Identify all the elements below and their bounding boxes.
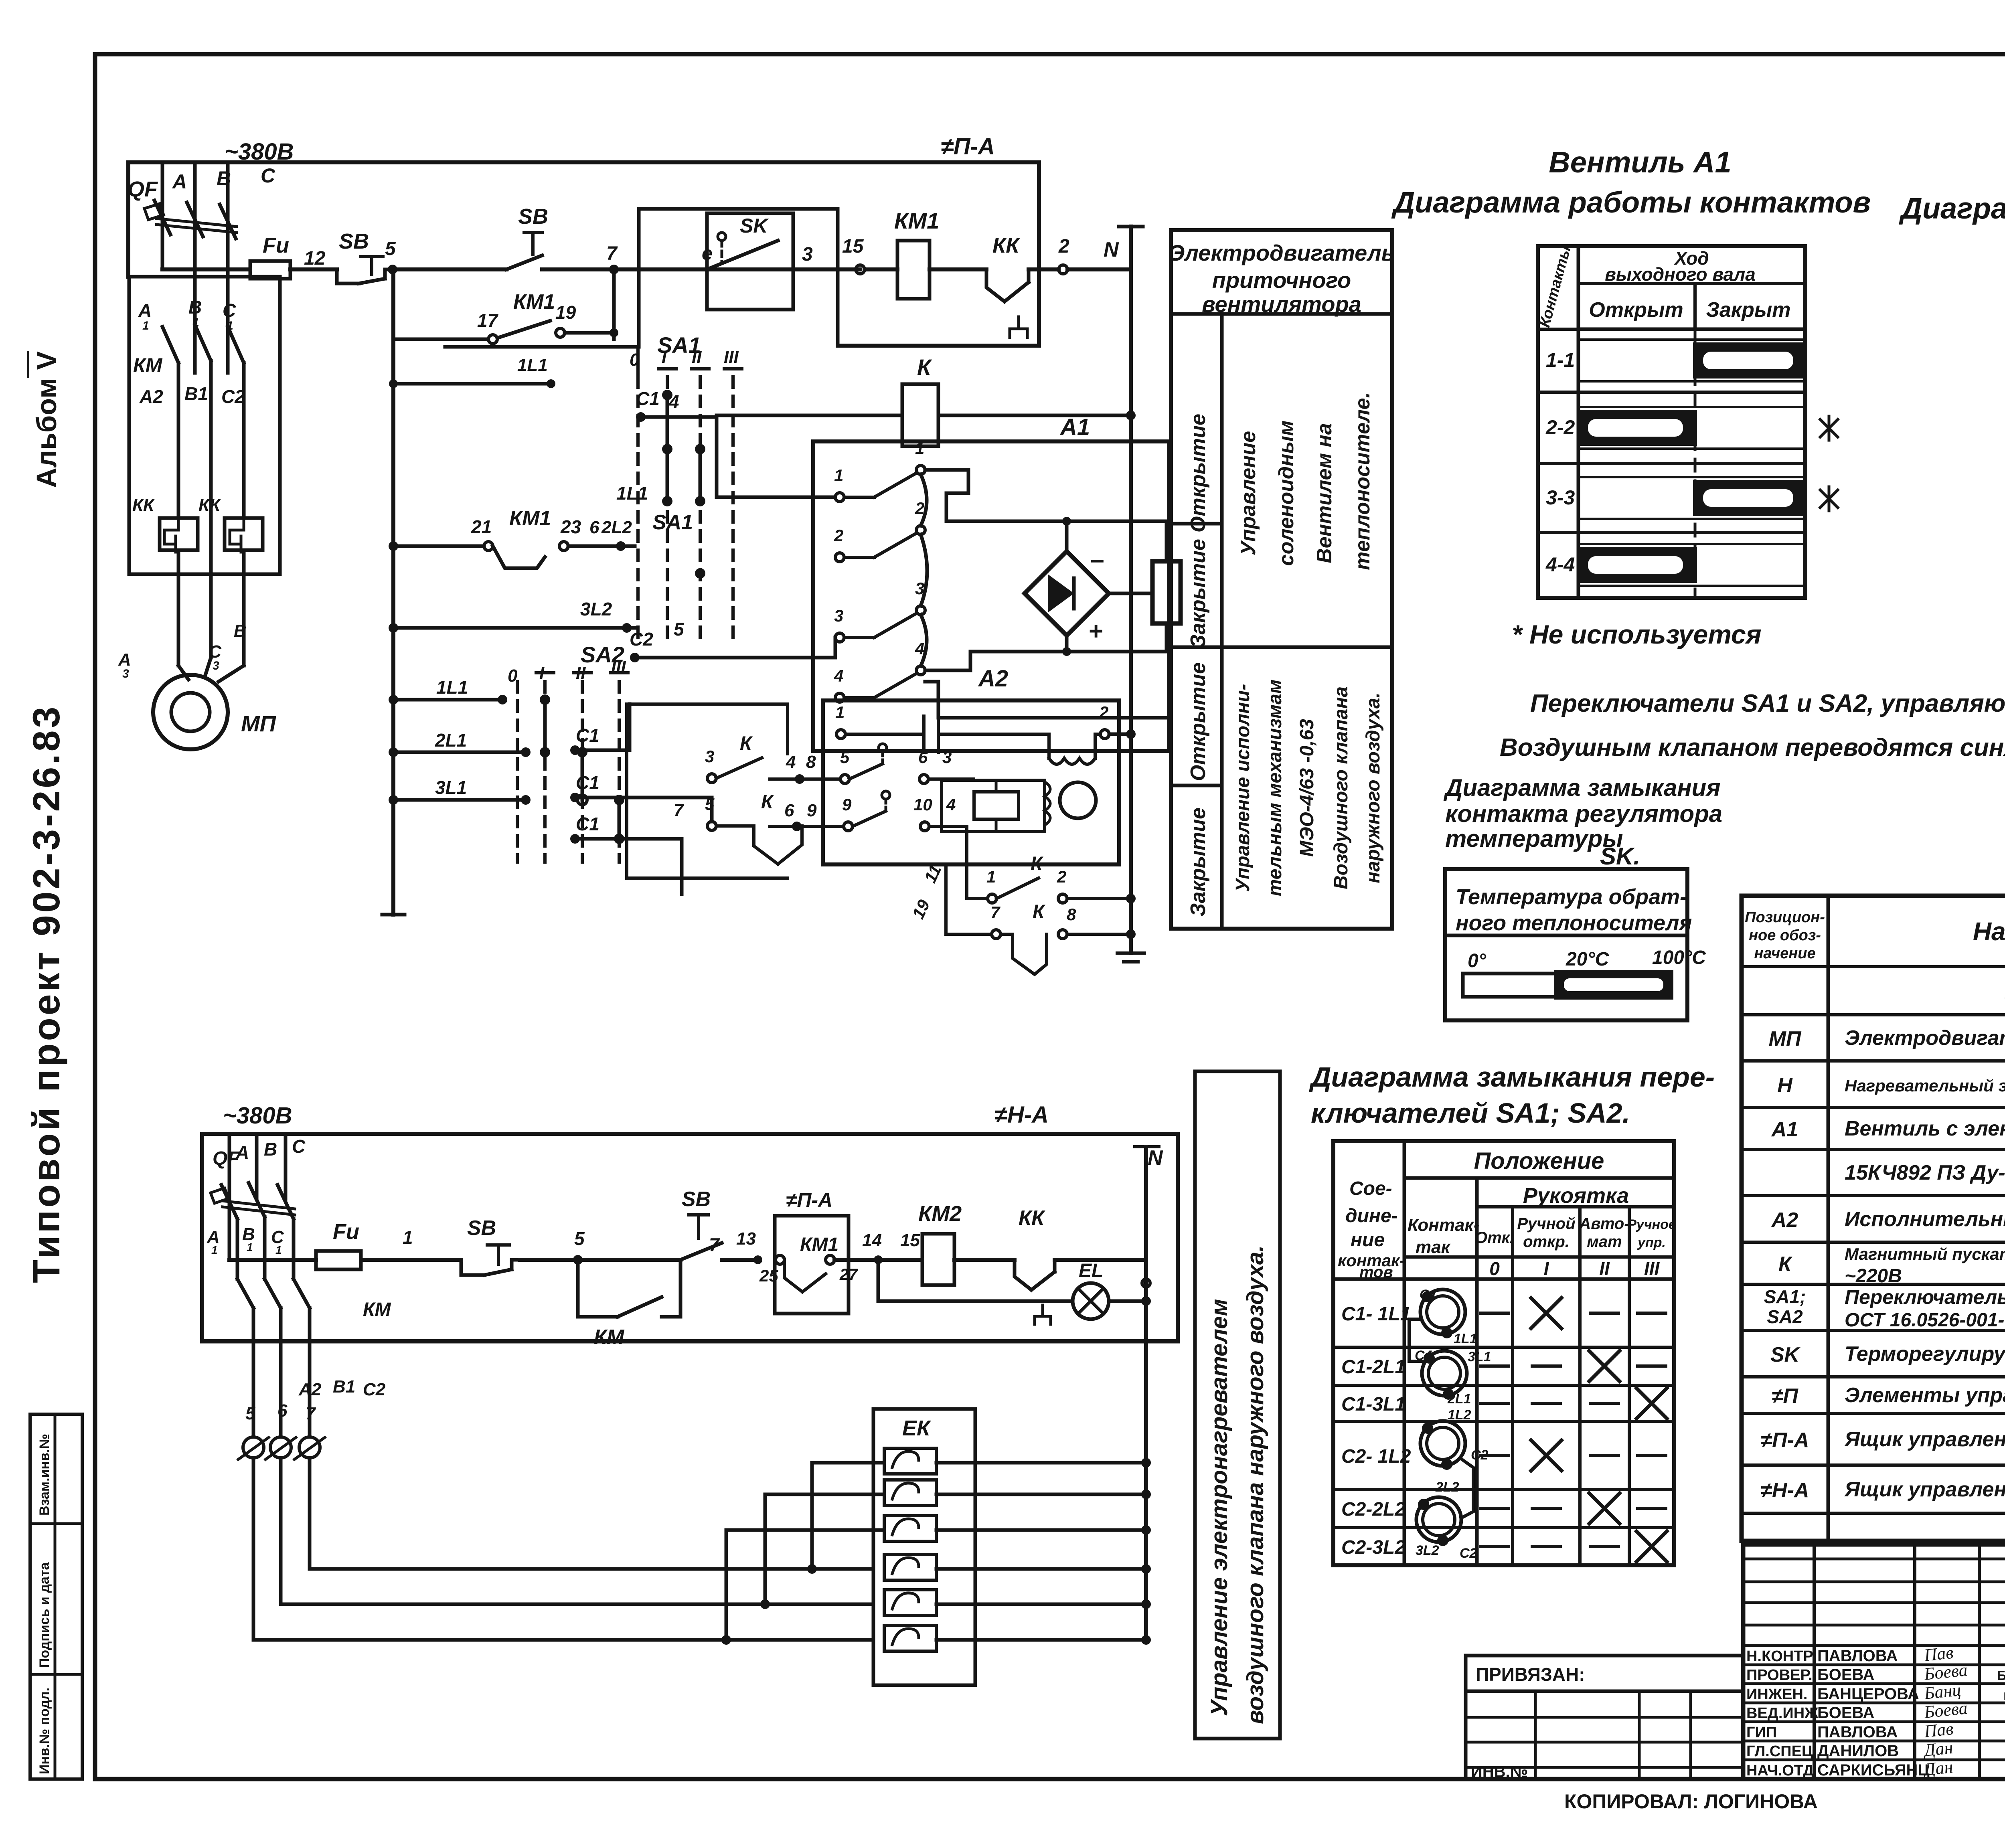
svg-text:5: 5 [840, 748, 850, 767]
KK enclosure top [129, 275, 280, 279]
K contact1 term [988, 894, 996, 903]
svg-text:Управление исполни-: Управление исполни- [1232, 684, 1254, 892]
EL branch wire [878, 1299, 1073, 1303]
asterisk row3-3 [1820, 487, 1838, 511]
svg-text:К: К [740, 733, 753, 754]
title block left row line [1743, 1581, 2005, 1583]
K contact5 term [840, 775, 849, 783]
stamp divider [54, 1414, 57, 1779]
K breaker 7-8 [1000, 934, 1047, 974]
A1 diag thin line b 2-2 [1578, 447, 1805, 450]
svg-text:3L2: 3L2 [580, 599, 612, 619]
A1 diag thin line a 1-1 [1578, 338, 1805, 341]
SB2 contact blade [506, 255, 542, 269]
svg-text:SA2: SA2 [1767, 1306, 1803, 1327]
svg-text:КОПИРОВАЛ: ЛОГИНОВА: КОПИРОВАЛ: ЛОГИНОВА [1564, 1790, 1818, 1813]
svg-text:4: 4 [946, 795, 956, 814]
A1 diag bar 3-3 [1695, 482, 1805, 514]
svg-text:С2: С2 [221, 386, 245, 407]
A1 diag thin line a 2-2 [1578, 406, 1805, 408]
SA2 bar II [581, 752, 584, 800]
wire 23 to SA1 [568, 544, 635, 548]
temp bar outline [1463, 974, 1671, 997]
SA contact circle 2 inner [1428, 1357, 1460, 1389]
svg-text:ного теплоносителя: ного теплоносителя [1456, 911, 1692, 935]
A1 link wires [921, 474, 927, 666]
inv table row line [1466, 1741, 1743, 1744]
A1 bridge top lead [1065, 521, 1069, 551]
A1 bridge right lead [1109, 592, 1152, 595]
A1 bottom junction [1062, 647, 1071, 656]
svg-text:БАНЦЕРОВА: БАНЦЕРОВА [1817, 1685, 1919, 1703]
A1 pin4 link [925, 669, 970, 672]
svg-text:А1: А1 [1059, 414, 1090, 440]
c2 node 13 [753, 1255, 762, 1264]
A2 row1 wire [845, 733, 924, 736]
svg-text:14: 14 [862, 1231, 882, 1250]
KM blade B [195, 325, 211, 361]
fuse FU [250, 261, 290, 279]
A1 pin3 right [916, 606, 925, 615]
svg-text:Открытие: Открытие [1187, 662, 1210, 781]
inv table left [1464, 1691, 1468, 1779]
svg-text:17: 17 [477, 310, 499, 331]
c2 QF tie2 [223, 1207, 295, 1215]
terminal circle [299, 1437, 320, 1458]
svg-text:8: 8 [1067, 905, 1076, 924]
svg-text:Диаграмма работы контактов: Диаграмма работы контактов [1391, 186, 1871, 219]
EK elem3 riser [725, 1530, 728, 1640]
SA row line left С2-3L2 [1333, 1526, 1404, 1529]
svg-text:тельным механизмам: тельным механизмам [1264, 680, 1286, 897]
A2 motor winding [1049, 734, 1095, 764]
phase A to motor [177, 550, 180, 666]
SA1 column I dashed [666, 377, 669, 638]
temp bar filled [1556, 972, 1671, 998]
A1 diag row line 1-1 [1538, 328, 1805, 331]
svg-text:Переключатели SA1 и SA2, управ: Переключатели SA1 и SA2, управляющие вен… [1530, 690, 2005, 717]
SA2 col II tick [573, 671, 591, 674]
A1 coil return wire [970, 650, 1167, 654]
svg-text:2: 2 [1058, 236, 1069, 257]
inv table col line [1534, 1691, 1537, 1779]
asterisk row2-2 [1820, 416, 1838, 440]
wire fuse to SB [290, 267, 337, 271]
svg-text:Ящик управления ЯУ5111-03А2Н: Ящик управления ЯУ5111-03А2Н [1844, 1428, 2005, 1451]
bus 380V circuit1 / P-A box top [128, 160, 1039, 164]
svg-text:ГИП: ГИП [1746, 1724, 1777, 1741]
svg-text:Альбом V: Альбом V [31, 351, 62, 488]
K contact blade 1-2 [996, 878, 1039, 899]
A1 coil bottom lead [1165, 623, 1169, 652]
svg-text:5: 5 [674, 619, 685, 640]
contact 23 terminal [559, 542, 568, 551]
svg-text:SB: SB [518, 204, 548, 229]
divider open/close 2 [1171, 784, 1222, 787]
N rail ground [1117, 953, 1144, 962]
svg-text:ВЕД.ИНЖ: ВЕД.ИНЖ [1746, 1705, 1819, 1722]
SA col divider 1 [1403, 1141, 1406, 1565]
wire to relay block [928, 777, 974, 781]
SA contact circle 1 inner [1427, 1296, 1459, 1328]
svg-text:0°: 0° [1468, 950, 1487, 972]
svg-text:19: 19 [909, 897, 934, 922]
c2 KM1 contact [784, 1260, 826, 1292]
section divider [1171, 646, 1392, 649]
terminal circle [270, 1437, 291, 1458]
contactor coil KM1 [897, 241, 930, 299]
EK element 3 [884, 1516, 936, 1541]
EK element 3 wire to N [936, 1528, 1146, 1532]
QF handle [144, 204, 164, 220]
EK junction 3 [1141, 1525, 1151, 1535]
parts table row line [1742, 1148, 2005, 1151]
c2 main wire to fuse [229, 1258, 316, 1262]
svg-text:2L1: 2L1 [435, 730, 467, 751]
svg-text:15: 15 [842, 236, 864, 257]
wire 19 to vertical [565, 331, 614, 335]
c2 drop B to EK feed [279, 1458, 283, 1604]
svg-text:+: + [1088, 617, 1103, 645]
SA circle 3 blob b [1441, 1459, 1452, 1470]
svg-text:I: I [539, 663, 545, 683]
parts table box [1742, 896, 2005, 1541]
riser to SK enclosure [637, 209, 641, 347]
SA dash row4 colO [1480, 1454, 1509, 1457]
c2 QF blade A [221, 1185, 237, 1219]
QF blade A [154, 200, 170, 235]
A1 diag header line2 [1578, 328, 1805, 331]
c2 drop C to EK feed [308, 1458, 312, 1569]
N-A box top [202, 1132, 1178, 1136]
SA dash row1 colII [1590, 1312, 1618, 1315]
stub 1L1 [393, 698, 502, 702]
SA col divider 4 [1578, 1207, 1582, 1565]
c2 phase A drop2 [252, 1308, 255, 1435]
SA1 contact bar I b [666, 449, 669, 501]
A1 return drop [969, 652, 972, 670]
SA X mark row1 [1531, 1298, 1561, 1328]
svg-text:Сое-: Сое- [1349, 1178, 1392, 1199]
A1 diag bar 1-1 [1695, 344, 1805, 376]
SA hdr line rukoyatka [1404, 1176, 1674, 1180]
C2 stub dot [630, 653, 640, 662]
P-A box right edge [1037, 162, 1041, 346]
parts table row line [1742, 1412, 2005, 1415]
title block left row line [1743, 1644, 2005, 1647]
svg-text:SB: SB [467, 1216, 496, 1240]
svg-text:100°С: 100°С [1652, 947, 1706, 968]
c2 QF handle [211, 1188, 229, 1203]
SA circ link 3-4 [1461, 1459, 1473, 1518]
svg-text:В1: В1 [333, 1377, 355, 1397]
svg-text:Переключатель пакетный ПП2-10: Переключатель пакетный ПП2-10/Н3 У3 56 [1845, 1286, 2005, 1308]
SA contact circle 3 outer [1420, 1421, 1465, 1466]
C2-5 wire to A1 [635, 656, 835, 660]
SK device box [707, 213, 793, 310]
SA dash row3 colO [1480, 1402, 1509, 1405]
SA dash row5 colIII [1638, 1507, 1666, 1510]
A1 pin1 left [835, 493, 844, 502]
svg-text:1L2: 1L2 [1448, 1407, 1471, 1423]
wire node7 into box [614, 267, 840, 271]
svg-text:≠П-А: ≠П-А [941, 134, 995, 160]
SA row line left С2-2L2 [1333, 1488, 1404, 1491]
phase B vertical [193, 162, 197, 373]
wire K coil to N [938, 414, 1131, 417]
SA circle 1 blob b [1441, 1327, 1452, 1338]
EK junction 1 [1141, 1458, 1151, 1467]
svg-text:КМ1: КМ1 [513, 290, 555, 314]
svg-text:Ручное: Ручное [1627, 1217, 1676, 1232]
K contact blade row2 [849, 764, 883, 779]
svg-text:5: 5 [705, 795, 715, 814]
A2 row2 left node [795, 774, 804, 784]
svg-text:КМ: КМ [363, 1299, 391, 1320]
svg-text:7: 7 [990, 903, 1000, 922]
svg-text:2: 2 [834, 526, 843, 545]
svg-text:3L2: 3L2 [1416, 1543, 1439, 1558]
SA row line С2-3L2 [1404, 1526, 1674, 1529]
SA2 bar III [618, 800, 621, 839]
parts table column line [1827, 896, 1830, 1541]
svg-text:А: А [172, 170, 187, 193]
frame bottom border [95, 1777, 2005, 1781]
QF blade B [187, 202, 203, 237]
svg-text:7: 7 [709, 1234, 720, 1255]
terminal circle [243, 1437, 264, 1458]
c2 drop A to EK feed [252, 1458, 255, 1640]
SA1 contact bar I [666, 395, 669, 449]
title block vertical [1978, 1544, 1981, 1779]
svg-text:3: 3 [834, 606, 843, 625]
svg-text:1: 1 [275, 1244, 282, 1256]
svg-text:3: 3 [122, 667, 129, 680]
svg-text:В1: В1 [184, 383, 208, 404]
svg-text:1: 1 [834, 466, 843, 485]
A2 brake relay [974, 792, 1019, 819]
phase C to motor [242, 550, 246, 666]
wire to K coil [717, 414, 902, 417]
c2 P-A sub box [775, 1216, 849, 1314]
svg-text:Взам.инв.№: Взам.инв.№ [37, 1434, 52, 1516]
SA circle 4 blob a [1418, 1499, 1429, 1510]
svg-text:МЭО-4/63 -0,63: МЭО-4/63 -0,63 [1296, 719, 1318, 857]
wire into SK [674, 268, 707, 271]
A1 pin1 hook [925, 468, 968, 472]
svg-text:С1- 1L1: С1- 1L1 [1341, 1304, 1411, 1325]
wire phase A to fuse [162, 267, 250, 271]
svg-text:КМ: КМ [594, 1326, 625, 1349]
wire SK to 15 [778, 267, 860, 271]
riser to K78 [944, 864, 948, 934]
A2 row2 wire in [770, 777, 840, 781]
SA row line С2- 1L2 [1333, 1420, 1674, 1423]
SA1 col0 link to bypass [636, 347, 640, 377]
svg-text:19: 19 [555, 302, 576, 323]
stub 3L1 [393, 798, 526, 802]
wire KM1 coil to KK [930, 267, 986, 271]
svg-text:КМ1: КМ1 [894, 208, 939, 233]
stub 2L1 [393, 751, 526, 754]
SA dash row2 colO [1480, 1364, 1509, 1368]
svg-text:наружного воздуха.: наружного воздуха. [1363, 692, 1384, 883]
overline on V [27, 352, 29, 377]
junction stub u1 [389, 379, 398, 388]
wire KK to node2 [1029, 267, 1059, 271]
QF blade C [220, 204, 236, 239]
A1 pin1 right [916, 466, 925, 474]
EK element 5 [884, 1590, 936, 1615]
K contact8 term [1058, 930, 1067, 939]
svg-text:КМ2: КМ2 [918, 1202, 962, 1226]
svg-text:≠П-А: ≠П-А [1761, 1429, 1809, 1452]
svg-text:ключателей SA1; SA2.: ключателей SA1; SA2. [1311, 1097, 1630, 1129]
A2 row3 wire in [770, 825, 844, 828]
stamp bottom [30, 1777, 82, 1781]
KK heater element 2 [225, 518, 263, 550]
svg-text:Управление: Управление [1237, 431, 1260, 555]
A1 pin2 right [916, 526, 925, 534]
SA contact circle 4 inner [1423, 1504, 1455, 1536]
svg-text:С1: С1 [576, 814, 599, 834]
svg-text:С1-2L1: С1-2L1 [1341, 1356, 1406, 1378]
K contact 5-6 wire [716, 824, 754, 828]
svg-text:А2: А2 [139, 386, 163, 407]
SA X mark row2 [1589, 1351, 1620, 1381]
KK enclosure left [128, 277, 131, 574]
svg-text:температуры: температуры [1445, 825, 1623, 852]
phase C vertical [226, 162, 230, 373]
svg-text:QF: QF [128, 177, 158, 201]
text box upravlenie elektro [1195, 1071, 1280, 1739]
KK hook 1 [164, 518, 178, 552]
svg-text:Элементы управления эл. двигат: Элементы управления эл. двигателем МП [1845, 1384, 2005, 1407]
svg-text:1: 1 [986, 867, 996, 886]
svg-text:2L1: 2L1 [1447, 1391, 1471, 1407]
wire pin10 out [929, 825, 967, 828]
svg-text:БИОЛОГИЧЕСКОЙ ОЧИСТКИ СТОЧНЫХ: БИОЛОГИЧЕСКОЙ ОЧИСТКИ СТОЧНЫХ ВОД [1997, 1668, 2005, 1683]
svg-text:Нагревательный элемент типа ТЭ: Нагревательный элемент типа ТЭН-60Б-12,5… [1845, 1076, 2005, 1095]
N-A box right [1176, 1134, 1180, 1341]
A1 top wire drop [945, 493, 948, 521]
c2 SB2 blade [680, 1243, 722, 1260]
SK contact blade [707, 241, 778, 269]
svg-text:Ящик управления ЯУ5111-03А2Н: Ящик управления ЯУ5111-03А2Н [1844, 1478, 2005, 1501]
heater block EK box [873, 1409, 975, 1685]
EK element 6 [884, 1625, 936, 1651]
frame left border [93, 54, 97, 1779]
SA hdr line cols [1477, 1205, 1674, 1208]
EK junction 2 [1141, 1490, 1151, 1499]
SK enclosure right [836, 209, 840, 346]
stamp box top [30, 1413, 82, 1416]
A1 diag thin line b 4-4 [1578, 585, 1805, 587]
svg-text:Боева: Боева [1923, 1660, 1969, 1684]
A1 contact2 blade [874, 533, 916, 557]
svg-text:7: 7 [606, 243, 618, 264]
junction 1L1 [389, 695, 398, 704]
SA2 column II dashed [581, 682, 584, 862]
title block personnel row line [1743, 1740, 2005, 1743]
svg-text:21: 21 [471, 516, 492, 537]
svg-text:≠Н-А: ≠Н-А [1761, 1479, 1809, 1502]
c2 contact27 term [826, 1255, 834, 1264]
junction 3L1 [389, 795, 398, 805]
svg-text:1L1: 1L1 [616, 483, 648, 504]
A2 pin1 [836, 730, 845, 739]
SA dash row1 colIII [1638, 1312, 1666, 1315]
svg-text:ГЛ.СПЕЦ.: ГЛ.СПЕЦ. [1746, 1743, 1817, 1760]
contact 21 terminal [484, 542, 493, 551]
svg-text:6: 6 [784, 801, 794, 820]
svg-text:ПРИВЯЗАН:: ПРИВЯЗАН: [1476, 1664, 1585, 1685]
svg-text:С2-2L2: С2-2L2 [1341, 1499, 1406, 1520]
EK element 1 [884, 1448, 936, 1474]
svg-text:Н.КОНТР: Н.КОНТР [1746, 1648, 1813, 1665]
title block box [1743, 1544, 2005, 1779]
EL cross 2 [1078, 1288, 1104, 1314]
A1 out drop [937, 682, 940, 718]
SA dash row5 colI [1532, 1507, 1560, 1510]
wire to N rail [1067, 267, 1131, 271]
SA1 II lower dot [695, 568, 705, 579]
SA1 col I top tick [658, 367, 676, 370]
svg-text:1L1: 1L1 [517, 355, 548, 375]
EK junction 5 [1141, 1599, 1151, 1609]
SA1 column III dashed [731, 377, 735, 638]
A1 diag row line 4-4 [1538, 531, 1805, 534]
SB2 plunger [524, 233, 542, 255]
stamp left edge [28, 1414, 32, 1779]
SB1 contact bar [359, 279, 385, 283]
motor MP inner circle [171, 693, 210, 731]
KK contact break [986, 269, 1005, 302]
svg-text:А2: А2 [978, 666, 1008, 692]
svg-text:Диаграмма замыкания: Диаграмма замыкания [1443, 774, 1721, 801]
title block left row line [1743, 1558, 2005, 1561]
phase C drop [242, 363, 246, 518]
svg-text:Подпись и дата: Подпись и дата [37, 1562, 52, 1668]
SA hdr line OI [1404, 1255, 1674, 1259]
title block left row line [1743, 1601, 2005, 1604]
A1 diag thin line a 4-4 [1578, 543, 1805, 545]
KK heater element 1 [160, 518, 198, 550]
svg-text:Вентиль с электромагнитным при: Вентиль с электромагнитным приводом [1845, 1117, 2005, 1140]
svg-text:Вентилем на: Вентилем на [1313, 423, 1336, 563]
svg-text:Открытие: Открытие [1187, 414, 1210, 532]
SA circ link 1-2 [1409, 1319, 1425, 1361]
temperature diagram box [1445, 869, 1687, 1020]
svg-text:SB: SB [682, 1188, 711, 1211]
KK lead up [1027, 269, 1031, 282]
junction SA1 colI [616, 541, 626, 551]
stamp row line 2 [30, 1673, 82, 1676]
left rail from node 5 [391, 269, 395, 915]
svg-text:2-2: 2-2 [1545, 416, 1575, 439]
SA circle 2 blob b [1443, 1389, 1454, 1400]
junction K-N [1126, 411, 1136, 420]
svg-text:C2: C2 [630, 629, 653, 650]
relay K coil [902, 384, 938, 446]
N-A box bottom [202, 1339, 1178, 1344]
A2 pin2 to N rail [1109, 733, 1131, 736]
svg-text:II: II [692, 347, 702, 367]
c2 KM contact blade [618, 1297, 662, 1317]
phase A drop [177, 363, 180, 518]
svg-text:НАЧ.ОТД: НАЧ.ОТД [1746, 1762, 1814, 1779]
SA dash row4 colIII [1638, 1454, 1666, 1457]
